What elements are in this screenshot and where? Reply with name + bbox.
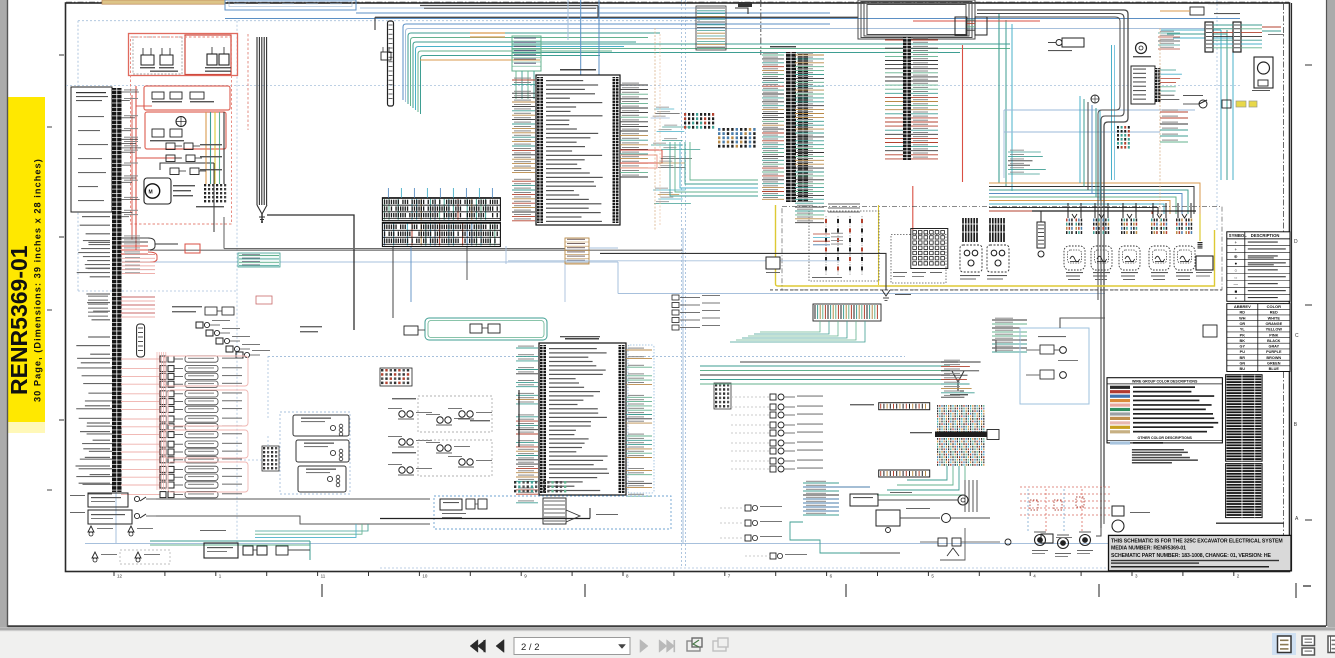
svg-text:WH: WH bbox=[1239, 316, 1246, 320]
svg-text:PINK: PINK bbox=[1269, 333, 1278, 337]
svg-text:PURPLE: PURPLE bbox=[1266, 350, 1282, 354]
svg-text:8: 8 bbox=[626, 574, 629, 579]
svg-text:—: — bbox=[1234, 282, 1239, 287]
svg-text:1: 1 bbox=[219, 574, 222, 579]
svg-text:GY: GY bbox=[1240, 345, 1246, 349]
svg-text:⊕: ⊕ bbox=[1234, 254, 1238, 259]
svg-text:RENR5369-01: RENR5369-01 bbox=[6, 245, 32, 395]
svg-text:BU: BU bbox=[1240, 367, 1246, 371]
svg-text:M: M bbox=[149, 190, 153, 196]
svg-text:RD: RD bbox=[1240, 311, 1246, 315]
svg-text:D: D bbox=[1294, 239, 1298, 245]
svg-text:RED: RED bbox=[1270, 311, 1278, 315]
svg-text:DESCRIPTION: DESCRIPTION bbox=[1251, 233, 1280, 238]
svg-text:OR: OR bbox=[1239, 322, 1245, 326]
svg-text:BR: BR bbox=[1240, 356, 1246, 360]
svg-text:+: + bbox=[1234, 247, 1237, 252]
svg-text:10: 10 bbox=[422, 574, 428, 579]
svg-text:11: 11 bbox=[321, 574, 326, 579]
svg-text:BK: BK bbox=[1240, 339, 1246, 343]
svg-text:2 / 2: 2 / 2 bbox=[521, 642, 540, 653]
svg-text:GREEN: GREEN bbox=[1267, 362, 1281, 366]
svg-text:■: ■ bbox=[1234, 289, 1237, 294]
svg-text:2: 2 bbox=[1237, 574, 1240, 579]
svg-text:12: 12 bbox=[117, 574, 123, 579]
svg-text:30 Page, (Dimensions: 39 inche: 30 Page, (Dimensions: 39 inches x 28 inc… bbox=[33, 158, 43, 402]
svg-text:B: B bbox=[1294, 422, 1298, 428]
svg-text:●: ● bbox=[1234, 261, 1237, 266]
svg-text:ORANGE: ORANGE bbox=[1265, 322, 1282, 326]
svg-text:THIS SCHEMATIC IS FOR THE 325C: THIS SCHEMATIC IS FOR THE 325C EXCAVATOR… bbox=[1111, 539, 1283, 545]
svg-text:MEDIA NUMBER: RENR5369-01: MEDIA NUMBER: RENR5369-01 bbox=[1111, 546, 1186, 552]
svg-text:9: 9 bbox=[524, 574, 527, 579]
svg-text:7: 7 bbox=[728, 574, 731, 579]
svg-text:6: 6 bbox=[830, 574, 833, 579]
svg-text:5: 5 bbox=[931, 574, 934, 579]
svg-text:A: A bbox=[1295, 516, 1299, 522]
svg-text:BLUE: BLUE bbox=[1269, 367, 1280, 371]
svg-text:SCHEMATIC PART NUMBER: 183-100: SCHEMATIC PART NUMBER: 183-1008, CHANGE:… bbox=[1111, 553, 1272, 559]
svg-text:WIRE GROUP COLOR DESCRIPTIONS: WIRE GROUP COLOR DESCRIPTIONS bbox=[1132, 379, 1198, 383]
svg-text:OTHER COLOR DESCRIPTIONS: OTHER COLOR DESCRIPTIONS bbox=[1137, 436, 1192, 440]
svg-text:BLACK: BLACK bbox=[1267, 339, 1281, 343]
svg-text:GN: GN bbox=[1239, 362, 1245, 366]
svg-text:+: + bbox=[1234, 240, 1237, 245]
svg-text:YL: YL bbox=[1240, 328, 1246, 332]
svg-text:4: 4 bbox=[1033, 574, 1036, 579]
svg-text:BROWN: BROWN bbox=[1266, 356, 1281, 360]
svg-text:GRAY: GRAY bbox=[1268, 345, 1279, 349]
svg-text:WHITE: WHITE bbox=[1268, 316, 1281, 320]
svg-text:○: ○ bbox=[1234, 268, 1237, 273]
svg-text:PK: PK bbox=[1240, 333, 1246, 337]
svg-text:SYMBOL: SYMBOL bbox=[1229, 233, 1247, 238]
svg-text:⇔: ⇔ bbox=[1234, 275, 1239, 280]
svg-text:ABBREV: ABBREV bbox=[1234, 304, 1251, 309]
svg-text:COLOR: COLOR bbox=[1267, 304, 1282, 309]
svg-text:3: 3 bbox=[1135, 574, 1138, 579]
svg-text:YELLOW: YELLOW bbox=[1266, 328, 1283, 332]
svg-text:C: C bbox=[1295, 333, 1299, 339]
svg-text:PU: PU bbox=[1240, 350, 1246, 354]
